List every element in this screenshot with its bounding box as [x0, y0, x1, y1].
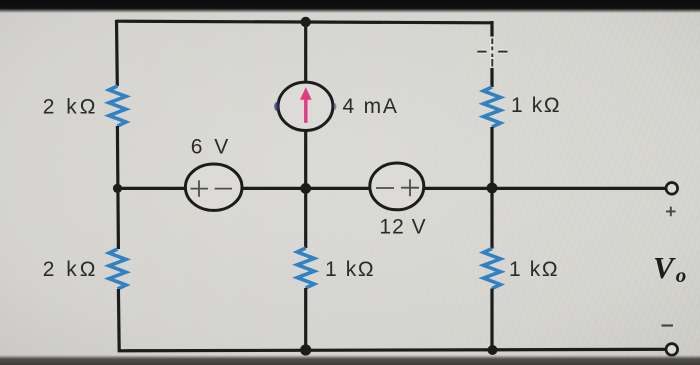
terminal bottom	[666, 344, 678, 356]
node dot mid-right	[487, 183, 498, 194]
node dot bottom-middle	[300, 344, 311, 355]
V1 polarity minus	[215, 188, 232, 190]
wire bottom	[118, 349, 666, 351]
svg-text:1 kΩ: 1 kΩ	[509, 258, 559, 281]
svg-text:6 V: 6 V	[191, 136, 232, 159]
resistor R2 2k bottom-left	[109, 249, 126, 289]
wire middle branch lower	[304, 288, 307, 350]
wire top	[117, 21, 492, 23]
wire middle branch upper	[304, 22, 307, 83]
node dot bottom-right	[488, 345, 498, 355]
svg-text:2 kΩ: 2 kΩ	[43, 96, 99, 119]
node dot top-middle	[301, 17, 311, 27]
wire mid-right	[424, 187, 666, 190]
node dot mid-middle	[300, 183, 311, 194]
output minus sign	[662, 324, 674, 326]
resistor R3 1k middle	[297, 248, 314, 288]
svg-text:1 kΩ: 1 kΩ	[325, 258, 375, 281]
voltage source V2 12V	[370, 163, 424, 210]
svg-text:4 mA: 4 mA	[343, 95, 399, 118]
svg-text:1 kΩ: 1 kΩ	[511, 94, 561, 117]
wire left branch middle	[117, 126, 118, 249]
wire left branch upper	[115, 20, 119, 86]
wire left branch lower	[117, 289, 121, 351]
V1 polarity plus	[191, 180, 208, 196]
terminal top	[666, 183, 678, 195]
svg-text:2 kΩ: 2 kΩ	[43, 258, 99, 281]
svg-text:12 V: 12 V	[379, 216, 426, 239]
V2 polarity plus	[401, 179, 419, 196]
wire middle branch mid	[304, 130, 307, 248]
wire right branch upper	[490, 21, 493, 87]
wire mid-center	[241, 187, 371, 190]
output plus sign	[666, 207, 676, 217]
resistor R4 1k top-right	[484, 87, 501, 127]
wire mid-left	[118, 187, 187, 190]
current source I1 4mA	[278, 82, 333, 130]
voltage source V1 6V	[185, 164, 242, 210]
cursor crosshair	[477, 38, 507, 67]
I1 arrow	[304, 99, 307, 123]
wire right branch lower	[490, 289, 493, 351]
wire right branch middle	[490, 127, 493, 249]
V2 polarity minus	[376, 187, 394, 189]
resistor R1 2k top-left	[109, 86, 126, 126]
resistor R5 1k bottom-right	[484, 249, 501, 289]
node dot mid-left	[113, 184, 122, 193]
